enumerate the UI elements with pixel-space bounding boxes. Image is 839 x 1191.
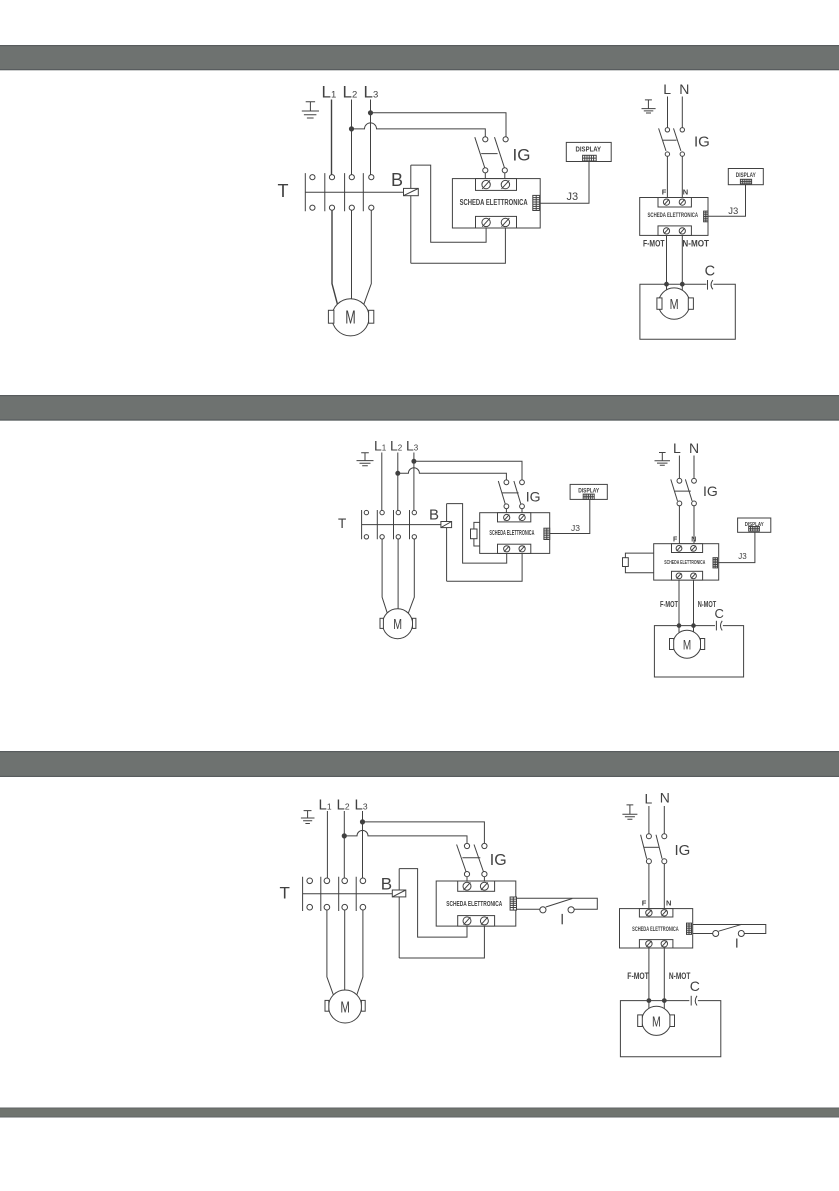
svg-text:N-MOT: N-MOT [669,971,691,981]
svg-text:SCHEDA ELETTRONICA: SCHEDA ELETTRONICA [648,212,699,219]
svg-text:N: N [689,440,699,456]
wire IG pole2 to board [504,173,506,180]
motor left tab [657,298,662,309]
svg-text:SCHEDA ELETTRONICA: SCHEDA ELETTRONICA [460,198,528,207]
svg-text:B: B [391,170,403,190]
contactor T bottom terminals [307,904,366,910]
wire IG pole2 to board [483,877,485,883]
screw terminal [646,941,652,947]
junction on L3 [360,820,364,824]
wire F-MOT to motor [678,580,680,633]
svg-text:T: T [280,883,290,902]
wire IG to F input [648,864,650,910]
wire L3 branch to IG [371,113,507,137]
board left connector loop [625,553,653,573]
svg-text:SCHEDA ELETTRONICA: SCHEDA ELETTRONICA [632,926,679,933]
svg-text:J3: J3 [728,206,738,217]
screw terminal [480,917,488,925]
wire relay B bottom [410,195,412,263]
electronic board U3 [480,513,550,554]
connector J3 [704,211,708,222]
screw terminal [676,546,682,552]
wire L2 vertical [351,100,353,175]
ground (section 1 single-phase) [642,100,656,113]
wire contactor to motor phase 3 [357,910,363,995]
contactor T actuating bar wire to relay B [362,524,441,526]
relay B [392,890,406,897]
junction on L3 [412,459,416,463]
svg-text:N: N [666,898,671,907]
left connector component [623,558,629,567]
switch IG linkage [675,490,691,492]
wire IG to F input [678,506,680,546]
board left connector loop [474,522,480,546]
svg-text:F-MOT: F-MOT [643,238,665,248]
connector J3 [533,195,540,210]
junction F-MOT [665,282,669,286]
svg-text:N-MOT: N-MOT [682,238,709,248]
wire relay B to board lower-left terminal [447,504,507,563]
switch IG pole 2 [474,843,487,876]
capacitor C [716,621,722,631]
svg-text:M: M [340,1000,350,1017]
motor right tab [361,1000,365,1011]
junction N-MOT [692,624,696,628]
svg-text:SCHEDA ELETTRONICA: SCHEDA ELETTRONICA [489,530,534,537]
svg-text:M: M [683,637,691,653]
svg-text:IG: IG [526,488,541,504]
contactor T pole bars [305,173,363,211]
motor left tab [638,1015,643,1027]
switch IG linkage [502,492,519,494]
switch IG pole 1 [475,137,488,173]
screw terminal [519,514,525,520]
svg-text:C: C [705,264,715,280]
wire L [678,456,680,479]
wire N-MOT to motor [663,948,665,1008]
svg-text:F: F [642,898,647,907]
junction F-MOT [677,624,681,628]
wire L2 branch to IG with hop over L3 [352,123,486,137]
screw terminal [691,546,697,552]
svg-text:M: M [670,296,679,313]
connector J3 [510,897,516,910]
svg-text:B: B [429,507,439,524]
wire L1 vertical [381,453,383,511]
board top terminal block [672,544,703,553]
svg-text:M: M [652,1015,661,1031]
wire contactor to motor phase 1 [332,210,337,304]
switch IG pole 1 [457,843,470,876]
wire L2 branch to IG with hop over L3 [344,830,467,843]
screw terminal [691,573,697,579]
contactor T bottom terminals [364,535,416,539]
footer bar [0,1108,839,1118]
wire L1 vertical [326,811,328,878]
wire L2 branch to IG with hop over L3 [398,468,507,480]
svg-text:F-MOT: F-MOT [660,599,678,609]
screw terminal [663,199,669,205]
switch IG pole 2 [495,137,509,173]
junction on L2 [349,127,353,131]
ground (section 3 single-phase) [622,805,637,819]
svg-text:T: T [278,181,289,201]
display connector [583,494,594,499]
svg-text:N-MOT: N-MOT [698,599,717,609]
junction on L2 [396,471,400,475]
wire IG to N input [681,156,683,199]
svg-text:M: M [393,616,402,633]
svg-text:N: N [683,187,688,196]
board top terminal block [476,179,517,191]
wire IG pole1 to board [484,173,486,180]
board bottom terminal block [498,544,531,553]
contactor T pole bars [362,510,410,539]
wire relay B top [446,504,448,522]
ground (section 3 three-phase) [301,811,315,824]
motor left tab [380,618,383,628]
wire N [681,97,683,128]
motor frame [640,284,735,339]
ground (section 2 single-phase) [655,453,671,466]
wire contactor to motor phase 1 [382,539,387,613]
display connector [749,527,760,532]
motor M [673,630,701,658]
connector J3 [687,923,692,934]
display module [566,142,611,161]
wire J3 to display [550,499,590,533]
wire relay B to board lower-left terminal [411,165,486,242]
switch IG pole 1 [498,480,509,509]
switch IG linkage [462,857,480,859]
wire relay B bottom [446,528,448,582]
svg-text:IG: IG [513,146,531,165]
electronic board U6 [620,909,693,948]
wire L [648,806,650,834]
board top terminal block [658,198,691,208]
ground (section 2 three-phase) [357,453,374,466]
screw terminal [482,218,490,227]
screw terminal [519,546,525,552]
svg-text:DISPLAY: DISPLAY [576,144,602,153]
svg-text:IG: IG [694,133,710,150]
svg-text:T: T [338,516,346,531]
svg-text:F-MOT: F-MOT [627,971,649,981]
wire IG to F input [666,156,668,199]
svg-text:C: C [715,606,724,621]
connector J3 [544,528,550,539]
wire relay B bottom [398,897,400,958]
wire relay B to board lower-right terminal [411,228,506,263]
svg-text:N: N [679,81,689,97]
display connector [740,179,751,184]
wire J3 to display [708,185,746,217]
wire L [667,97,669,128]
wire contactor to motor phase 2 [397,539,399,609]
switch I [713,924,745,936]
label I [736,939,738,948]
screw terminal [646,910,652,916]
capacitor C [708,280,713,290]
header bar section 3 [0,751,839,777]
screw terminal [463,882,471,890]
screw terminal [504,514,510,520]
contactor T pole bars [303,877,357,911]
wire IG to N input [693,506,695,546]
relay B [404,188,419,195]
ground (section 1 three-phase) [302,102,319,118]
wire F-MOT to motor [666,235,668,290]
motor left tab [325,1000,329,1011]
wire relay B top [410,165,412,189]
svg-text:N: N [691,536,696,543]
wire L2 vertical [397,453,399,511]
switch I [540,899,574,913]
contactor T actuating bar wire to relay B [303,893,393,895]
wire F-MOT to motor [648,948,650,1008]
svg-text:IG: IG [490,852,507,869]
switch IG linkage [663,139,677,141]
switch IG pole 1 [641,834,652,864]
electronic board U4 [654,544,719,580]
junction on L2 [342,834,346,838]
display module [570,484,607,499]
svg-text:N: N [660,790,670,806]
header bar section 2 [0,395,839,421]
switch IG pole 1 [659,128,670,157]
wire relay B top [398,869,400,890]
electronic board U5 [436,881,516,926]
screw terminal [482,180,490,189]
display connector [583,155,597,161]
motor M [658,288,689,319]
svg-text:DISPLAY: DISPLAY [736,172,757,179]
electronic board U1 [452,179,540,228]
svg-text:F: F [673,536,678,543]
wire N [663,806,665,834]
screw terminal [676,573,682,579]
display module [738,518,771,532]
contactor T actuating bar wire to relay B [305,191,403,193]
contactor T top terminals [310,175,374,180]
board top terminal block [458,881,495,891]
wire L3 vertical [362,811,364,878]
wire L1 vertical [331,100,333,175]
board top terminal block [498,513,531,522]
svg-text:SCHEDA ELETTRONICA: SCHEDA ELETTRONICA [664,560,705,566]
wire IG pole1 to board [505,509,507,515]
wire IG pole2 to board [521,509,523,515]
electronic board U2 [640,198,708,236]
wire IG pole1 to board [466,877,468,883]
switch IG pole 2 [685,478,696,505]
screw terminal [480,882,488,890]
svg-text:IG: IG [703,483,718,499]
svg-text:SCHEDA ELETTRONICA: SCHEDA ELETTRONICA [446,899,502,908]
wire L3 vertical [370,100,372,175]
board bottom terminal block [658,226,691,236]
switch IG linkage [481,153,497,155]
motor M [383,609,413,639]
wire contactor to motor phase 3 [408,539,414,613]
svg-text:J3: J3 [567,191,579,203]
capacitor C [691,996,697,1006]
wire N-MOT to motor [681,235,683,290]
motor right tab [701,639,705,650]
switch IG pole 2 [656,834,667,864]
svg-text:L: L [645,790,653,806]
svg-text:L: L [673,440,681,456]
motor M [329,990,362,1023]
wire J3 to display [540,162,589,204]
wire L2 vertical [343,811,345,878]
switch IG pole 1 [671,478,682,505]
svg-text:L: L [663,81,671,97]
wire contactor to motor phase 2 [351,210,353,298]
screw terminal [663,228,669,234]
switch IG linkage [644,846,659,848]
wire L3 vertical [413,453,415,511]
switch IG pole 2 [674,128,685,157]
svg-text:IG: IG [675,842,691,859]
junction N-MOT [662,999,666,1003]
connector J3 [713,558,718,568]
board bottom terminal block [639,940,673,948]
svg-text:F: F [662,187,667,196]
label I [561,914,563,924]
wire relay B to board lower-right terminal [447,553,522,581]
screw terminal [463,917,471,925]
wire relay B to board lower-left terminal [399,869,467,938]
screw terminal [679,228,685,234]
contactor T top terminals [307,878,366,884]
board bottom terminal block [672,571,703,580]
screw terminal [501,218,509,227]
contactor T top terminals [364,510,416,514]
svg-text:J3: J3 [738,552,747,561]
wire relay B to board lower-right terminal [399,926,484,958]
wire contactor to motor phase 3 [364,210,371,304]
junction F-MOT [647,999,651,1003]
left connector component [471,529,478,539]
wire contactor to motor phase 1 [327,910,334,995]
wire L3 branch to IG [414,461,522,480]
svg-text:M: M [345,308,356,328]
switch IG pole 2 [514,480,524,509]
screw terminal [661,910,667,916]
board bottom terminal block [458,916,495,927]
header bar section 1 [0,45,839,70]
motor left tab [670,639,674,650]
wire contactor to motor phase 2 [344,910,346,990]
wire N [693,456,695,479]
contactor T bottom terminals [310,205,374,210]
junction N-MOT [680,282,684,286]
motor right tab [688,298,693,309]
screw terminal [661,941,667,947]
junction on L3 [368,111,372,115]
wire L3 branch to IG [363,822,485,843]
wire IG to N input [663,864,665,910]
wire J3 to switch I loop [517,898,598,909]
motor frame [620,1001,720,1057]
board bottom terminal block [476,216,517,228]
screw terminal [501,180,509,189]
wire N-MOT to motor [693,580,695,632]
display module [728,169,763,185]
motor right tab [670,1015,675,1027]
screw terminal [504,546,510,552]
motor frame [654,626,743,677]
svg-text:J3: J3 [571,523,580,533]
wire J3 to display [718,532,755,562]
board top terminal block [639,909,673,917]
motor right tab [369,310,374,323]
wire J3 to switch I loop [693,925,766,934]
svg-text:C: C [690,978,700,994]
motor M [332,299,369,336]
motor right tab [413,618,416,628]
svg-text:B: B [381,874,392,893]
motor M [642,1006,671,1035]
relay B [441,522,452,528]
motor left tab [328,310,334,323]
screw terminal [679,199,685,205]
